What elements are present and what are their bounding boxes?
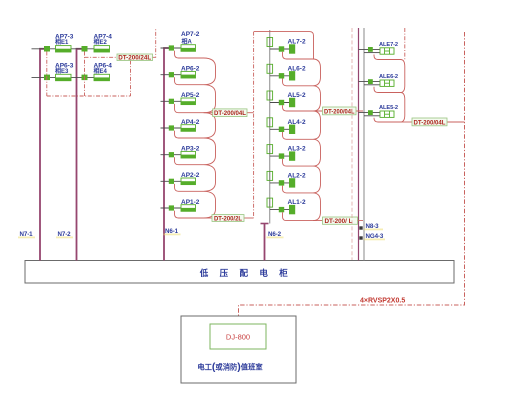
svg-text:ALE6-2: ALE6-2	[379, 74, 398, 80]
svg-text:DT-200/24L: DT-200/24L	[118, 54, 151, 61]
svg-text:相E1: 相E1	[55, 38, 69, 46]
svg-text:DJ-800: DJ-800	[226, 333, 250, 342]
svg-text:AL6-2: AL6-2	[288, 65, 306, 72]
svg-text:AP3-2: AP3-2	[181, 146, 200, 153]
svg-text:N7-2: N7-2	[58, 231, 72, 238]
svg-text:N6-1: N6-1	[165, 228, 179, 235]
svg-text:相E4: 相E4	[94, 67, 108, 75]
svg-text:AP6-2: AP6-2	[181, 66, 200, 73]
svg-text:DT-200/ L: DT-200/ L	[325, 218, 353, 225]
svg-text:AL5-2: AL5-2	[288, 92, 306, 99]
svg-text:DT-200/04L: DT-200/04L	[414, 119, 446, 126]
svg-text:ALE5-2: ALE5-2	[379, 105, 398, 111]
svg-text:N8-3: N8-3	[366, 223, 380, 230]
svg-text:AL2-2: AL2-2	[288, 172, 306, 179]
svg-text:ALE7-2: ALE7-2	[379, 42, 398, 48]
svg-text:AP5-2: AP5-2	[181, 92, 200, 99]
svg-text:NG4-3: NG4-3	[366, 233, 384, 240]
svg-text:DT-200/2L: DT-200/2L	[214, 215, 242, 222]
svg-text:AP2-2: AP2-2	[181, 172, 200, 179]
svg-text:相E2: 相E2	[94, 38, 108, 46]
svg-text:DT-200/04L: DT-200/04L	[214, 110, 246, 117]
svg-text:DT-200/04L: DT-200/04L	[324, 108, 355, 115]
svg-text:AP1-2: AP1-2	[181, 199, 200, 206]
svg-text:相E3: 相E3	[55, 67, 69, 75]
svg-text:AP4-2: AP4-2	[181, 119, 200, 126]
svg-text:AL1-2: AL1-2	[288, 199, 306, 206]
svg-text:4×RVSP2X0.5: 4×RVSP2X0.5	[360, 298, 405, 305]
svg-text:AL4-2: AL4-2	[288, 119, 306, 126]
svg-text:相A: 相A	[182, 38, 193, 46]
svg-text:低 压 配 电 柜: 低 压 配 电 柜	[199, 268, 292, 278]
svg-text:AL7-2: AL7-2	[288, 39, 306, 46]
svg-text:AL3-2: AL3-2	[288, 146, 306, 153]
svg-text:电工(或消防)值班室: 电工(或消防)值班室	[197, 361, 263, 373]
svg-text:N6-2: N6-2	[268, 231, 282, 238]
svg-text:AP7-2: AP7-2	[181, 31, 200, 38]
svg-text:N7-1: N7-1	[20, 231, 34, 238]
